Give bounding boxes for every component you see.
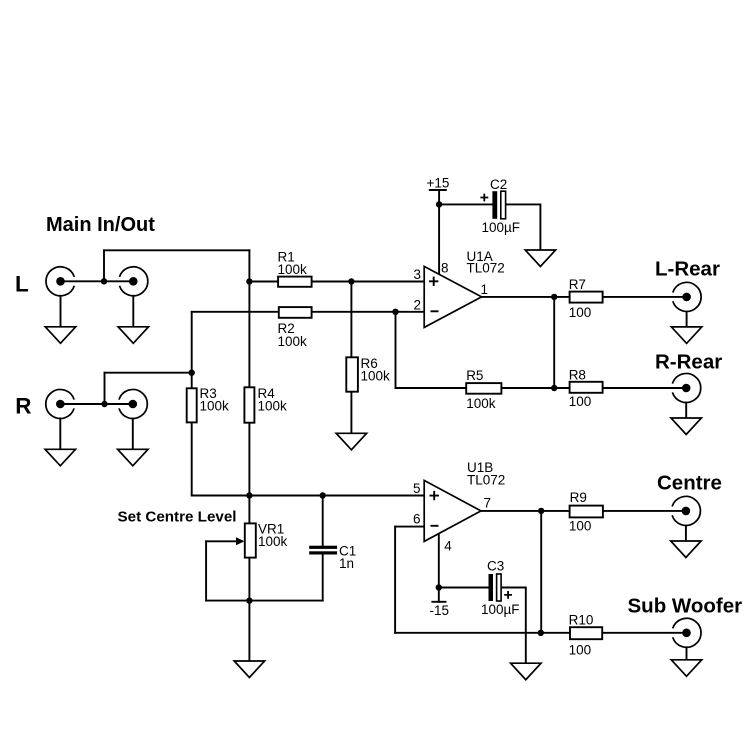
svg-text:100k: 100k	[278, 334, 308, 349]
wire R jack link	[60, 403, 133, 405]
wire L junction up	[103, 250, 105, 281]
wire R6 ground stem	[350, 392, 352, 434]
svg-text:R7: R7	[569, 277, 586, 292]
wire C1 top	[322, 496, 324, 546]
potentiometer VR1 body	[245, 523, 256, 557]
op-amp U1B minus	[431, 525, 439, 527]
ground under L jack2	[118, 327, 148, 344]
svg-text:TL072: TL072	[467, 472, 505, 487]
node R1 input	[246, 278, 252, 284]
svg-text:6: 6	[413, 512, 421, 527]
jack R2	[119, 390, 147, 419]
wire C2 to ground corner	[506, 204, 541, 250]
wire R5 to R8	[501, 387, 569, 389]
jack Centre	[672, 496, 700, 525]
wire pin6 stub	[395, 526, 424, 528]
wire U1A output	[482, 296, 570, 298]
node C1 top	[320, 492, 326, 498]
resistor R5	[466, 383, 501, 394]
supply -15 bar	[431, 601, 446, 603]
wire pin2 feedback down	[395, 312, 397, 388]
capacitor C1 plates	[309, 546, 337, 555]
wire R3 bottom to pin5 rail	[191, 422, 193, 495]
ground under L-Rear	[671, 327, 701, 344]
wire R8 to R-Rear	[603, 387, 684, 389]
svg-text:-15: -15	[430, 603, 450, 618]
capacitor C2 plus sign	[480, 194, 488, 202]
node R1 output R6	[348, 278, 354, 284]
svg-text:R9: R9	[570, 490, 587, 505]
resistor R4	[244, 387, 254, 422]
wire U1B output	[481, 510, 570, 512]
wire L jack link	[61, 280, 134, 282]
svg-text:100k: 100k	[466, 396, 496, 411]
supply +15 bar	[429, 190, 447, 204]
capacitor C3 plates	[489, 574, 502, 601]
svg-text:Centre: Centre	[657, 471, 722, 494]
svg-text:7: 7	[484, 495, 492, 510]
wire pin6 feedback down	[394, 527, 396, 633]
svg-text:R5: R5	[466, 368, 483, 383]
node feedback R10	[538, 630, 544, 636]
wire L jack1 ground stem	[60, 296, 62, 327]
svg-text:100: 100	[569, 642, 592, 657]
node R5 R8	[551, 385, 557, 391]
jack Sub Woofer	[673, 618, 701, 647]
wire R4 bottom to centre node	[248, 423, 250, 524]
svg-text:R-Rear: R-Rear	[655, 350, 722, 373]
jack L-Rear	[673, 282, 701, 311]
jack L1	[46, 267, 74, 296]
wire to R5	[396, 387, 467, 389]
wire top horizontal	[104, 249, 249, 251]
svg-text:100k: 100k	[278, 262, 308, 277]
wire R1 to pin3	[312, 281, 425, 283]
svg-text:Set Centre Level: Set Centre Level	[118, 508, 237, 525]
wire R jack tap	[105, 372, 192, 374]
svg-text:5: 5	[413, 481, 421, 496]
wire C3 to ground vertical	[501, 588, 526, 664]
wire L jack2 ground stem	[132, 296, 134, 327]
svg-text:+15: +15	[427, 176, 450, 191]
op-amp U1B	[424, 480, 481, 541]
node R3 top	[189, 370, 195, 376]
svg-text:1: 1	[481, 282, 489, 297]
node U1B output	[538, 508, 544, 514]
ground under R jack2	[118, 449, 148, 466]
node pin4 -15	[436, 584, 442, 590]
svg-text:100µF: 100µF	[482, 220, 521, 235]
wire R-Rear ground stem	[685, 403, 687, 419]
jack R1	[46, 390, 74, 419]
node R jacks	[101, 401, 107, 407]
wire L-Rear ground stem	[686, 312, 688, 327]
node VR1 top	[246, 492, 252, 498]
node U1A output	[551, 294, 557, 300]
svg-text:100k: 100k	[258, 398, 288, 413]
op-amp U1A plus	[429, 277, 438, 286]
svg-text:100k: 100k	[258, 534, 288, 549]
wire +15 to C2	[439, 203, 492, 205]
wire U1B out down to R10 line	[540, 511, 542, 633]
resistor R2	[279, 307, 312, 318]
svg-text:R: R	[15, 394, 31, 419]
wire R9 to Centre	[603, 510, 684, 512]
wire R1 out down to R6	[350, 282, 352, 358]
wire VR1 bottom	[248, 558, 250, 601]
capacitor C3 plus sign	[504, 591, 512, 599]
svg-text:8: 8	[441, 261, 449, 276]
svg-text:4: 4	[444, 539, 452, 554]
resistor R10	[570, 627, 602, 639]
wire Sub Woofer ground stem	[686, 647, 688, 660]
jack R-Rear	[672, 374, 700, 403]
wire feedback rail to R10	[395, 632, 570, 634]
svg-text:100k: 100k	[361, 368, 391, 383]
wire R jack1 ground stem	[59, 419, 61, 450]
wire main vertical down to R4	[248, 250, 250, 387]
ground under C3	[511, 663, 541, 680]
node L jacks	[101, 278, 107, 284]
wire R junction up	[104, 373, 106, 404]
wire U1A out down to R8 line	[553, 297, 555, 388]
svg-text:Sub Woofer: Sub Woofer	[628, 595, 743, 618]
svg-text:100µF: 100µF	[481, 602, 520, 617]
svg-text:TL072: TL072	[467, 260, 505, 275]
resistor R9	[570, 506, 603, 518]
wire R jack2 ground stem	[132, 419, 134, 450]
wire pin4 down	[438, 534, 440, 588]
wire bottom loop	[206, 600, 323, 602]
wire left vertical R3 top	[191, 312, 193, 389]
ground under L jack1	[45, 327, 75, 344]
wire R2 to pin2	[312, 311, 425, 313]
capacitor C2 plates	[492, 191, 505, 219]
wire -15 stem	[438, 588, 440, 602]
svg-text:100: 100	[569, 305, 592, 320]
resistor R8	[570, 382, 603, 393]
svg-text:R8: R8	[569, 368, 586, 383]
wire wiper down	[205, 541, 207, 600]
svg-text:R10: R10	[569, 613, 594, 628]
svg-text:L: L	[15, 272, 29, 297]
ground under Sub Woofer	[671, 660, 701, 677]
op-amp U1A	[424, 266, 481, 327]
node pin2 feedback	[392, 309, 398, 315]
resistor R1	[278, 277, 312, 287]
svg-text:3: 3	[414, 267, 422, 282]
node +15 C2	[436, 201, 442, 207]
wire VR1 ground stem	[248, 601, 250, 661]
ground under R-Rear	[671, 418, 701, 435]
wire -15 node to C3	[439, 587, 489, 589]
wire pin8 supply	[438, 204, 440, 274]
wire R10 to Sub Woofer	[602, 632, 684, 634]
ground under Centre	[671, 541, 701, 558]
svg-text:C2: C2	[490, 177, 507, 192]
wire R7 to L-Rear	[603, 296, 684, 298]
svg-text:100: 100	[569, 394, 592, 409]
op-amp U1A minus	[431, 310, 439, 312]
svg-text:2: 2	[414, 298, 422, 313]
svg-text:C3: C3	[487, 559, 504, 574]
svg-text:1n: 1n	[339, 556, 354, 571]
svg-text:L-Rear: L-Rear	[655, 258, 720, 281]
wire pin5 rail	[192, 495, 425, 497]
ground under VR1	[234, 661, 264, 678]
svg-text:100k: 100k	[200, 398, 230, 413]
jack L2	[120, 267, 148, 296]
wire VR1 wiper	[206, 540, 238, 542]
wire left vert to R2	[192, 311, 279, 313]
svg-text:100: 100	[569, 518, 592, 533]
ground under C2	[525, 250, 555, 267]
svg-text:Main In/Out: Main In/Out	[46, 214, 155, 236]
wire C1 bottom	[322, 555, 324, 601]
op-amp U1B plus	[430, 491, 439, 500]
wire node to R1	[249, 281, 278, 283]
ground under R jack1	[45, 449, 75, 466]
node VR1 bottom	[246, 597, 252, 603]
ground under R6	[336, 433, 366, 450]
wire Centre ground stem	[685, 526, 687, 542]
resistor R6	[346, 357, 358, 391]
potentiometer VR1 wiper arrowhead	[236, 537, 245, 545]
resistor R3	[187, 388, 197, 422]
resistor R7	[570, 292, 603, 303]
